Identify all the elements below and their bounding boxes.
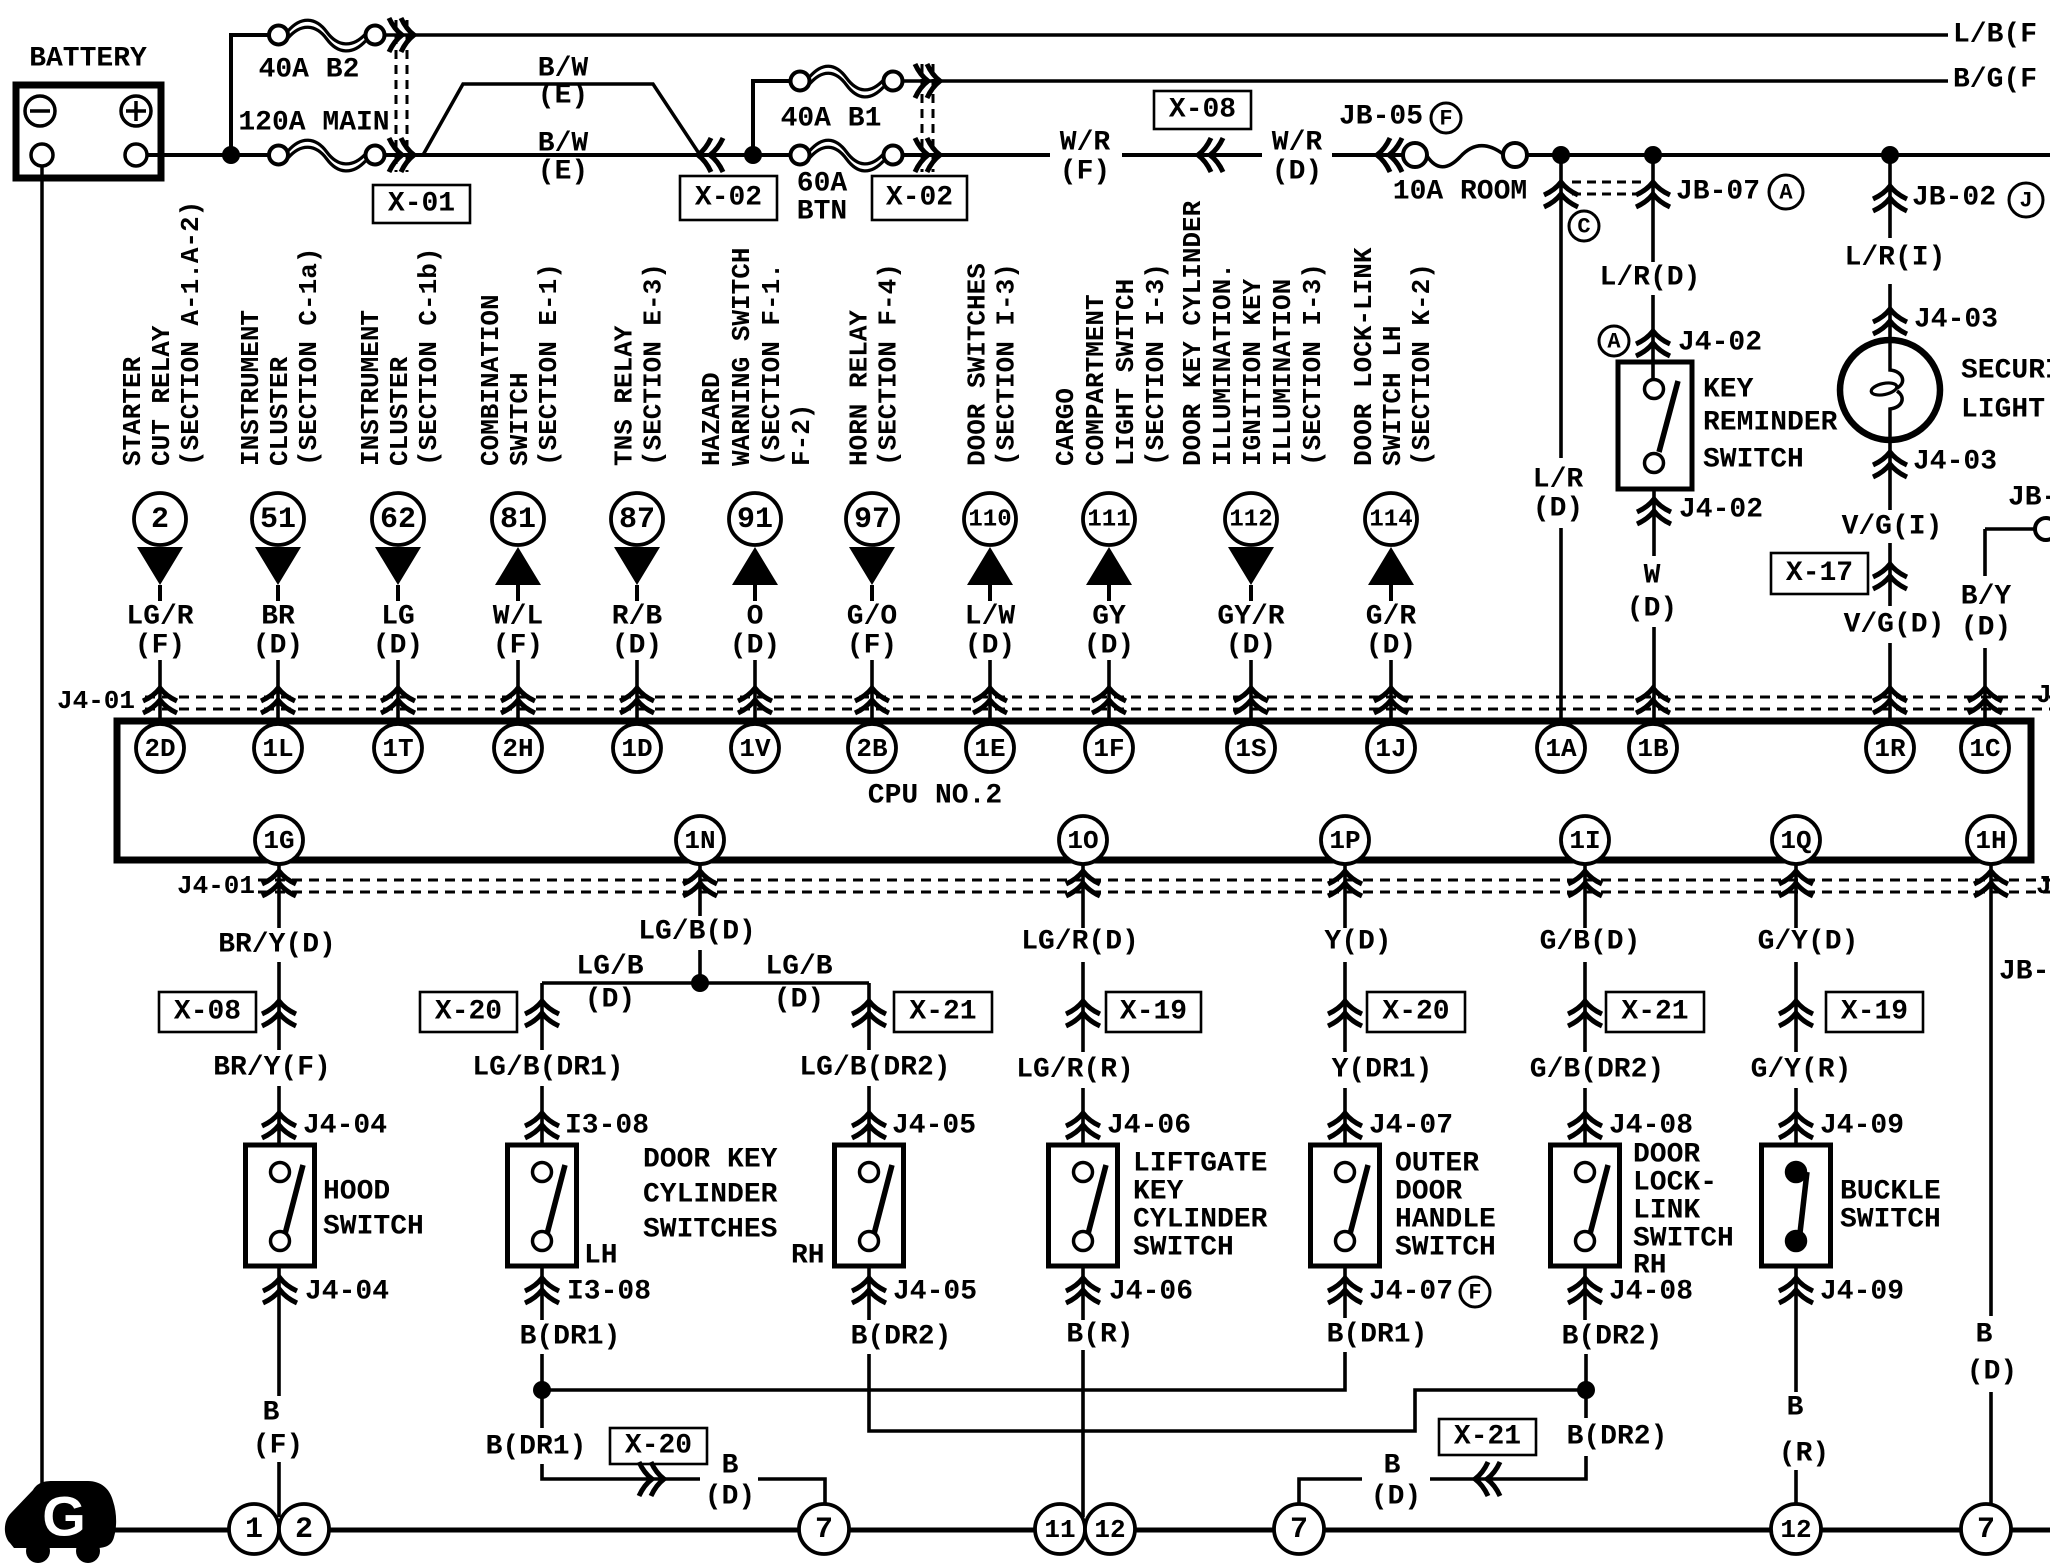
connector J4-01 chevron 110 [973,688,1007,713]
svg-text:GY: GY [1092,602,1126,633]
wire LG/B(DR2) [867,983,871,1050]
pin 2D [136,724,184,772]
connector X-02 [680,64,967,220]
svg-text:DOOR: DOOR [1633,1140,1700,1171]
node circuit number 81 [492,493,544,545]
connector J4-04 upper [262,1111,387,1142]
svg-text:(F): (F) [1060,157,1110,188]
node B(DR2) junction [1577,1381,1595,1399]
svg-text:HOOD: HOOD [323,1177,390,1208]
pin 1J [1367,724,1415,772]
svg-text:BR/Y(D): BR/Y(D) [218,930,336,961]
pin 1A [1537,724,1585,772]
svg-text:LG/R(D): LG/R(D) [1021,927,1139,958]
svg-text:A: A [1779,181,1793,206]
label W (D) [1627,561,1677,625]
svg-text:SWITCH: SWITCH [1840,1205,1941,1236]
wire L/W into CPU [988,660,992,724]
svg-text:LIFTGATE: LIFTGATE [1133,1149,1267,1180]
svg-text:COMBINATION: COMBINATION [476,294,506,466]
node INSTRUMENT CLUSTER a label [236,248,324,466]
svg-text:REMINDER: REMINDER [1703,408,1838,439]
svg-text:J4-06: J4-06 [1109,1277,1193,1308]
svg-text:B(DR2): B(DR2) [1567,1422,1668,1453]
svg-text:W/R: W/R [1060,128,1111,159]
wire arrow 97 [849,547,895,601]
connector J4-01 chevron 81 [501,688,535,713]
svg-text:2B: 2B [856,734,888,764]
svg-text:DOOR KEY: DOOR KEY [643,1145,778,1176]
svg-text:I3-08: I3-08 [565,1111,649,1142]
fuse 10A ROOM [1393,143,1527,208]
wire LG/B(D) [698,864,702,916]
svg-text:J4-05: J4-05 [893,1277,977,1308]
wire BR into CPU [276,660,280,724]
svg-text:B: B [263,1398,280,1429]
svg-text:10A ROOM: 10A ROOM [1393,177,1527,208]
connector X-17 [1771,553,1907,594]
label wire color LG (D) [373,602,423,662]
label wire color GY (D) [1084,602,1134,662]
node ground 11 at x=1060 [1035,1504,1085,1554]
node INSTRUMENT CLUSTER b label [356,248,444,466]
connector X-19 right [1779,992,1923,1032]
svg-text:(SECTION K-2): (SECTION K-2) [1407,263,1437,466]
svg-text:1I: 1I [1569,826,1600,856]
svg-text:B(DR1): B(DR1) [1327,1320,1428,1351]
wire G/O into CPU [870,660,874,724]
svg-text:L/R(D): L/R(D) [1600,263,1701,294]
pin 1R [1866,724,1914,772]
svg-text:LG/B(D): LG/B(D) [638,917,756,948]
label W/R (F) [1060,128,1111,188]
svg-text:(F): (F) [253,1431,303,1462]
svg-text:J4-03: J4-03 [1914,305,1998,336]
label wire color G/O (F) [847,602,897,662]
svg-text:R/B: R/B [612,602,663,633]
wire arrow 87 [614,547,660,601]
wire G/B(DR2) [1583,1088,1587,1145]
node HAZARD WARNING SWITCH label [697,248,817,466]
svg-text:(SECTION I-3): (SECTION I-3) [1141,263,1171,466]
svg-text:LG/R: LG/R [126,602,193,633]
svg-text:JB-07: JB-07 [1676,177,1760,208]
wire BR/Y(F) [277,1086,281,1145]
svg-text:X-01: X-01 [388,189,455,220]
svg-text:TNS RELAY: TNS RELAY [610,325,640,466]
svg-text:J4-03: J4-03 [1913,447,1997,478]
svg-text:J4-09: J4-09 [1820,1277,1904,1308]
svg-text:G/Y(D): G/Y(D) [1758,927,1859,958]
wire B(DR1) interconnect [542,1352,1345,1390]
connector J4-01 chevron 97 [855,688,889,713]
wire B/W bypass branch [423,84,700,155]
connector J4-01 chevron 87 [620,688,654,713]
connector J4-07 upper [1328,1111,1453,1142]
node DOOR KEY CYLINDER ILLUMINATION label [1178,200,1328,466]
svg-text:1C: 1C [1969,734,2000,764]
svg-text:B: B [1384,1451,1401,1482]
connector J4-03 lower [1873,447,1997,478]
pin 1Q [1772,816,1820,864]
wire LG/B branch [542,981,869,985]
svg-text:ILLUMINATION: ILLUMINATION [1268,279,1298,466]
svg-text:CYLINDER: CYLINDER [1133,1205,1268,1236]
node main junction at battery [222,146,240,164]
svg-text:CUT RELAY: CUT RELAY [147,325,177,466]
wire R/B into CPU [635,660,639,724]
svg-text:SWITCH: SWITCH [1703,445,1804,476]
label B/W (E) upper [538,54,589,112]
svg-text:B/G(F: B/G(F [1953,65,2037,96]
svg-text:L/W: L/W [965,602,1016,633]
ground symbol G car [5,1481,116,1563]
connector J4-01 chevron 114 [1374,688,1408,713]
svg-text:C: C [1577,215,1590,240]
svg-text:LIGHT: LIGHT [1961,395,2045,426]
svg-text:J4-08: J4-08 [1609,1111,1693,1142]
svg-text:HORN RELAY: HORN RELAY [845,310,875,466]
svg-text:SWITCH: SWITCH [1395,1233,1496,1264]
wire arrow 62 [375,547,421,601]
lamp security light [1840,340,1940,440]
svg-text:CLUSTER: CLUSTER [265,356,295,466]
svg-text:(D): (D) [1084,631,1134,662]
svg-text:87: 87 [619,503,655,537]
svg-text:1: 1 [245,1513,263,1547]
node circuit number 114 [1365,493,1417,545]
wire LG/R(R) [1081,1088,1085,1145]
svg-text:B: B [722,1451,739,1482]
pin 1H [1967,816,2015,864]
connector J4-01 chevron 1B [1636,688,1670,713]
svg-text:O: O [747,602,764,633]
wire main feed across [385,153,792,157]
svg-text:J4-04: J4-04 [305,1277,389,1308]
svg-text:(F): (F) [847,631,897,662]
svg-text:INSTRUMENT: INSTRUMENT [356,310,386,466]
svg-text:(SECTION E-1): (SECTION E-1) [534,263,564,466]
pin 1T [374,724,422,772]
wire BR/Y(D) [277,864,281,928]
svg-text:JB-: JB- [1999,957,2049,988]
svg-text:7: 7 [815,1513,833,1547]
terminal F circle [1431,103,1461,133]
wire arrow 112 [1228,547,1274,601]
wire G/Y(D) [1794,864,1798,928]
pin 1F [1085,724,1133,772]
svg-text:CYLINDER: CYLINDER [643,1180,778,1211]
connector J4-03 upper [1873,305,1998,336]
svg-text:RH: RH [791,1241,825,1272]
svg-text:12: 12 [1094,1515,1125,1545]
svg-text:SECURITY: SECURITY [1961,356,2050,387]
wire Y(DR1) [1343,1088,1347,1145]
svg-text:JB-: JB- [2008,483,2050,514]
wire GY/R into CPU [1249,660,1253,724]
svg-text:81: 81 [500,503,536,537]
svg-text:110: 110 [968,507,1011,534]
fuse 120A MAIN [238,108,389,171]
svg-text:(D): (D) [1961,613,2011,644]
label B (R) [1779,1393,1829,1470]
svg-text:STARTER: STARTER [118,356,148,466]
svg-text:X-21: X-21 [1454,1422,1521,1453]
label wire color BR (D) [253,602,303,662]
connector chevron into junction [698,138,723,172]
svg-text:(D): (D) [253,631,303,662]
svg-text:B/W: B/W [538,129,589,160]
wire arrow 2 [137,547,183,601]
svg-text:F-2): F-2) [787,404,817,466]
svg-text:1V: 1V [739,734,771,764]
wire B(DR1) outer door [1343,1266,1347,1318]
node C circle [1569,211,1599,241]
label HOOD SWITCH [323,1177,424,1243]
svg-text:1A: 1A [1545,734,1577,764]
connector J4-01 chevron 1P [1328,871,1362,896]
svg-text:60A: 60A [797,169,848,200]
wire L/R(I) 1R column [1888,155,1892,238]
pin 1I [1561,816,1609,864]
svg-text:(SECTION F-4): (SECTION F-4) [874,263,904,466]
node junction 1R column [1881,146,1899,164]
wire L/R (D) 1A column [1559,155,1563,458]
svg-text:1G: 1G [263,826,294,856]
svg-text:(D): (D) [612,631,662,662]
svg-text:(D): (D) [965,631,1015,662]
svg-text:BUCKLE: BUCKLE [1840,1177,1941,1208]
svg-text:JB-05: JB-05 [1339,102,1423,133]
svg-text:X-02: X-02 [695,183,762,214]
pin 1G [255,816,303,864]
svg-text:Y(DR1): Y(DR1) [1332,1055,1433,1086]
connector I3-08 upper [525,1111,649,1142]
switch door key cylinder RH [835,1145,904,1266]
svg-text:(D): (D) [1366,631,1416,662]
node ground 12 at x=1796 [1771,1504,1821,1554]
connector J4-06 upper [1066,1111,1191,1142]
svg-text:J4-01: J4-01 [2036,680,2050,710]
svg-text:LINK: LINK [1633,1196,1700,1227]
svg-text:JB-02: JB-02 [1912,183,1996,214]
svg-text:B(R): B(R) [1066,1320,1133,1351]
svg-text:GY/R: GY/R [1217,602,1284,633]
svg-text:DOOR LOCK-LINK: DOOR LOCK-LINK [1349,247,1379,466]
CPU NO.2 box [117,721,2031,860]
node COMBINATION SWITCH label [476,263,564,466]
svg-text:(SECTION F-1.: (SECTION F-1. [757,263,787,466]
node junction 1A column [1552,146,1570,164]
label wire color W/L (F) [493,602,543,662]
svg-text:F: F [1468,1281,1481,1306]
svg-text:(SECTION C-1b): (SECTION C-1b) [414,248,444,466]
pin 1C [1961,724,2009,772]
svg-text:(D): (D) [1226,631,1276,662]
svg-text:X-08: X-08 [174,997,241,1028]
fuse JB right edge [1985,518,2050,540]
wire main feed [1332,153,1404,157]
svg-text:LH: LH [584,1241,618,1272]
svg-text:COMPARTMENT: COMPARTMENT [1081,294,1111,466]
connector J4-01 chevron 1N [683,871,717,896]
svg-text:W/R: W/R [1272,128,1323,159]
wire W (D) [1652,489,1656,556]
svg-text:1Q: 1Q [1780,826,1811,856]
connector J4-02 lower [1637,495,1763,526]
label W/R (D) [1272,128,1323,188]
connector J4-01 chevron 112 [1234,688,1268,713]
wire B (F) [277,1266,281,1396]
connector J4-01 chevron 1I [1568,871,1602,896]
svg-text:G/B(D): G/B(D) [1540,927,1641,958]
svg-text:L/B(F: L/B(F [1953,20,2037,51]
svg-text:X-08: X-08 [1169,95,1236,126]
label wire color G/R (D) [1366,602,1417,662]
wire battery positive feed [147,153,269,157]
connector X-21 bottom [1439,1419,1536,1496]
svg-text:J4-06: J4-06 [1107,1111,1191,1142]
svg-text:1T: 1T [382,734,413,764]
connector J4-08 upper [1568,1111,1693,1142]
svg-text:HANDLE: HANDLE [1395,1205,1496,1236]
node circuit number 110 [964,493,1016,545]
svg-text:J4-01: J4-01 [2036,871,2050,901]
switch buckle [1762,1145,1831,1266]
label B (D) 1H [1967,1320,2017,1388]
label L/R (D) [1533,465,1584,525]
svg-text:(D): (D) [1627,594,1677,625]
svg-text:BR/Y(F): BR/Y(F) [213,1053,331,1084]
label SECURITY LIGHT [1961,356,2050,426]
pin 1L [254,724,302,772]
connector J4-07 lower [1328,1277,1453,1308]
connector J4-08 lower [1568,1277,1693,1308]
wire LG into CPU [396,660,400,724]
connector J4-01 chevron 1Q [1779,871,1813,896]
svg-text:B(DR1): B(DR1) [520,1322,621,1353]
node HORN RELAY label [845,263,904,466]
svg-text:(SECTION E-3): (SECTION E-3) [639,263,669,466]
svg-text:2H: 2H [502,734,533,764]
svg-text:SWITCHES: SWITCHES [643,1215,777,1246]
svg-text:97: 97 [854,503,890,537]
terminal A circle at J4-02 [1599,326,1629,356]
svg-text:12: 12 [1780,1515,1811,1545]
svg-text:LG/B(DR2): LG/B(DR2) [799,1053,950,1084]
svg-text:(R): (R) [1779,1439,1829,1470]
label wire color LG/R (F) [126,602,193,662]
connector J4-01 chevron 1O [1066,871,1100,896]
switch door lock-link RH [1551,1145,1620,1266]
label wire color GY/R (D) [1217,602,1284,662]
node circuit number 2 [134,493,186,545]
label wire color L/W (D) [965,602,1016,662]
node STARTER CUT RELAY label [118,201,206,466]
svg-text:1P: 1P [1329,826,1360,856]
pin 1B [1629,724,1677,772]
svg-text:(F): (F) [493,631,543,662]
svg-text:LOCK-: LOCK- [1633,1168,1717,1199]
svg-text:(D): (D) [1967,1357,2017,1388]
pin 1D [613,724,661,772]
svg-text:1L: 1L [262,734,293,764]
svg-text:WARNING SWITCH: WARNING SWITCH [727,248,757,466]
svg-text:OUTER: OUTER [1395,1149,1479,1180]
svg-text:LG/B(DR1): LG/B(DR1) [472,1053,623,1084]
svg-text:J4-02: J4-02 [1678,328,1762,359]
switch key reminder [1618,362,1692,489]
svg-text:B: B [1976,1320,1993,1351]
node LG/B junction [691,974,709,992]
switch door key cylinder LH [508,1145,577,1266]
connector JB-07 dashes [1572,182,1643,194]
connector JB-05 [1339,102,1423,173]
connector J4-01 chevron 111 [1092,688,1126,713]
node DOOR LOCK-LINK SWITCH LH label [1349,247,1437,466]
svg-text:SWITCH LH: SWITCH LH [1378,326,1408,466]
label B (D) right [1371,1451,1421,1513]
svg-text:1H: 1H [1975,826,2006,856]
svg-text:(SECTION A-1.A-2): (SECTION A-1.A-2) [176,201,206,466]
svg-text:X-20: X-20 [1382,997,1449,1028]
svg-text:LG/B: LG/B [765,952,832,983]
node circuit number 111 [1083,493,1135,545]
svg-text:G/B(DR2): G/B(DR2) [1530,1055,1664,1086]
connector J4-01 chevron 91 [738,688,772,713]
connector J4-01 chevron 1G [262,871,296,896]
svg-text:1R: 1R [1874,734,1906,764]
svg-text:62: 62 [380,503,416,537]
connector J4-01 chevron 1H [1974,871,2008,896]
wire battery negative to ground [40,166,44,1490]
svg-text:J4-07: J4-07 [1369,1111,1453,1142]
connector J4-01 chevron 1R [1873,688,1907,713]
svg-text:114: 114 [1369,507,1412,534]
svg-text:1S: 1S [1235,734,1266,764]
svg-text:X-19: X-19 [1120,997,1187,1028]
svg-text:HAZARD: HAZARD [697,372,727,466]
svg-text:DOOR KEY CYLINDER: DOOR KEY CYLINDER [1178,200,1208,466]
pin 1E [966,724,1014,772]
svg-text:X-21: X-21 [1621,997,1688,1028]
label LG/B (D) right [765,952,832,1016]
svg-text:CLUSTER: CLUSTER [385,356,415,466]
wire ground bus [114,1528,2050,1533]
svg-text:V/G(I): V/G(I) [1842,512,1943,543]
pin 1O [1059,816,1107,864]
node CARGO COMPARTMENT LIGHT SWITCH label [1051,263,1171,466]
battery [16,44,161,179]
wire arrow 114 [1368,547,1414,601]
node ground 7 at x=1986 [1961,1504,2011,1554]
svg-text:BATTERY: BATTERY [29,44,147,75]
wire B(DR2) RH [867,1266,871,1320]
svg-text:(SECTION C-1a): (SECTION C-1a) [294,248,324,466]
wire Y(D) [1343,864,1347,928]
svg-text:1O: 1O [1067,826,1098,856]
svg-text:7: 7 [1290,1513,1308,1547]
svg-text:X-02: X-02 [886,183,953,214]
svg-text:J4-07: J4-07 [1369,1277,1453,1308]
svg-text:IGNITION KEY: IGNITION KEY [1238,278,1268,466]
svg-text:(E): (E) [538,81,588,112]
svg-text:(D): (D) [705,1482,755,1513]
svg-text:J4-09: J4-09 [1820,1111,1904,1142]
switch hood [246,1145,315,1266]
connector X-21 [852,992,992,1032]
connector J4-09 lower [1779,1277,1904,1308]
